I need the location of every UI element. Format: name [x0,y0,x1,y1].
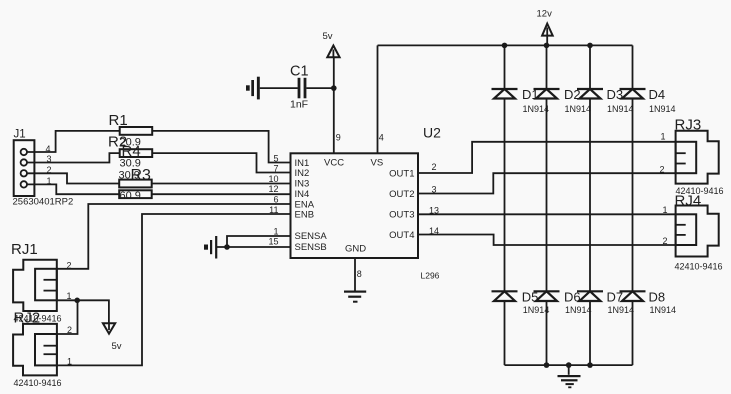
svg-text:42410-9416: 42410-9416 [14,378,62,388]
junction rail col3 [587,43,593,49]
svg-text:25630401RP2: 25630401RP2 [13,197,74,208]
ground (rotated, left of C1) [246,77,260,100]
junction rail col1 [502,43,508,49]
svg-text:3: 3 [432,185,437,195]
svg-text:15: 15 [268,236,278,246]
wire diode column 1 [504,45,506,365]
wire OUT2 to RJ3 pin 2 [418,173,676,193]
junction bottom col2 [544,362,550,368]
diode D5 [492,291,518,301]
svg-text:60.9: 60.9 [120,190,141,202]
svg-text:R1: R1 [109,112,128,129]
wire U2 pin 8 to ground [354,258,356,291]
svg-text:1: 1 [661,132,666,142]
connector RJ3 [676,131,719,184]
wire bottom rail [505,364,633,366]
svg-text:2: 2 [663,236,668,246]
svg-text:D8: D8 [649,290,666,305]
wire ground stem [568,365,570,375]
wire R3 right to U2 IN3 [152,183,291,185]
svg-text:1: 1 [273,226,278,236]
connector RJ2 [13,324,57,376]
svg-text:1N914: 1N914 [523,104,550,114]
svg-text:OUT4: OUT4 [389,230,414,241]
svg-text:1N914: 1N914 [565,104,592,114]
resistor R5 [119,190,152,198]
junction bottom ground stem [566,362,572,368]
wire J1 pin4 to R1 left [27,131,120,152]
svg-text:1N914: 1N914 [649,104,676,114]
svg-text:1N914: 1N914 [565,305,592,315]
junction bottom col3 [587,362,593,368]
wire R4 right to U2 IN2 [152,153,290,172]
connector RJ1 [13,260,57,311]
svg-text:C1: C1 [290,64,309,80]
svg-text:J1: J1 [14,129,26,141]
junction C1/VCC [331,85,337,91]
wire 12v stem [546,36,548,46]
wire OUT4 to RJ4 pin 2 [418,235,676,246]
junction rail col2 [544,43,550,49]
svg-text:U2: U2 [423,125,441,141]
svg-text:D4: D4 [649,87,666,102]
wire OUT1 to RJ3 pin 1 [418,142,676,173]
svg-text:5: 5 [273,153,278,163]
wire J1 pin2 to R3 left [27,173,119,183]
svg-text:13: 13 [429,206,439,216]
svg-text:12v: 12v [537,9,553,20]
connector J1 [14,140,35,196]
wire SENSA [227,236,291,247]
svg-text:1nF: 1nF [290,99,308,111]
wire 12v top rail [378,44,633,46]
svg-text:5v: 5v [323,31,333,42]
svg-text:42410-9416: 42410-9416 [675,262,723,272]
diode D8 [620,291,646,301]
wire J1 pin3 to R4 left [27,153,120,162]
wire ENB to RJ2 pin 1 [57,214,291,365]
svg-text:14: 14 [429,226,439,236]
wire RJ1 pin1 to 5v [57,300,109,323]
svg-text:1N914: 1N914 [650,305,677,315]
wire RJ2 pin2 to junction [57,300,78,334]
diode D4 [620,89,646,99]
wire OUT3 to RJ4 pin 1 [418,213,676,215]
svg-text:4: 4 [379,133,384,143]
junction RJ1 pin1 [74,298,80,304]
svg-text:RJ3: RJ3 [675,117,702,134]
resistor R3 [119,180,152,188]
svg-text:OUT2: OUT2 [389,189,414,200]
diode D1 [492,89,518,99]
svg-text:VS: VS [371,158,384,169]
power 5v arrow (down) [103,323,115,333]
svg-text:5v: 5v [112,341,122,352]
svg-text:9: 9 [336,133,341,143]
svg-text:GND: GND [345,244,366,255]
connector RJ4 [676,206,719,257]
svg-text:VCC: VCC [324,158,344,169]
wire R1 right to U2 IN1 [152,131,290,163]
op IC U2 body [291,153,419,258]
wire diode column 4 [632,45,634,365]
svg-text:1: 1 [663,205,668,215]
svg-text:2: 2 [660,165,665,175]
junction SENSA/SENSB [224,244,230,250]
svg-text:1N914: 1N914 [523,305,550,315]
svg-text:RJ1: RJ1 [11,241,38,258]
ground (U2 pin 8) [344,291,366,303]
wire ENA to RJ1 pin 2 [57,204,291,269]
svg-text:1N914: 1N914 [608,305,635,315]
svg-text:SENSB: SENSB [295,242,327,253]
svg-text:RJ4: RJ4 [675,193,702,210]
svg-text:IN2: IN2 [295,168,310,179]
diode D2 [534,89,560,99]
resistor R1 [120,127,153,135]
svg-text:OUT3: OUT3 [389,210,414,221]
diode D7 [577,291,603,301]
diode D6 [534,291,560,301]
svg-text:IN3: IN3 [295,179,310,190]
svg-text:SENSA: SENSA [295,231,328,242]
wire ground to C1 left [260,87,298,89]
wire 5v to U2 VCC pin 9 [333,57,335,153]
svg-text:1N914: 1N914 [607,104,634,114]
svg-text:10: 10 [268,174,278,184]
power 12v arrow [542,24,553,36]
wire C1 right to VCC node [306,87,333,89]
svg-text:OUT1: OUT1 [389,168,414,179]
svg-text:2: 2 [67,260,72,270]
wire diode column 2 [546,45,548,365]
svg-text:1: 1 [67,356,72,366]
svg-text:ENB: ENB [295,209,315,220]
resistor R4 [120,149,153,157]
wire SENSB [217,246,291,248]
ground (bottom rail) [558,375,581,388]
wire U2 VS pin 4 to 12v rail [377,45,379,153]
wire J1 pin1 to R5 left [27,184,119,194]
power 5v arrow (top) [327,46,339,58]
wire R5 right to U2 IN4 [152,193,291,195]
diode D3 [577,89,603,99]
svg-text:L296: L296 [421,271,440,281]
svg-text:7: 7 [273,163,278,173]
wire diode column 3 [589,45,591,365]
svg-text:8: 8 [357,269,362,279]
svg-text:2: 2 [432,162,437,172]
ground (rotated, at SENS) [204,236,217,259]
capacitor C1 [298,78,307,99]
svg-text:12: 12 [268,184,278,194]
svg-text:R3: R3 [131,167,152,184]
